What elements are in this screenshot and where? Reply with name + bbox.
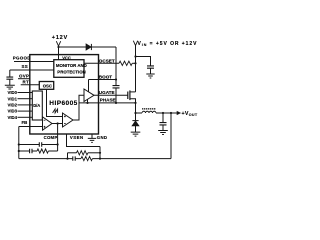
wire VID3 stub [18, 110, 33, 112]
wire PHASE internal [79, 102, 99, 104]
wire driver return stub [87, 99, 89, 103]
op-amp PWM comparator [63, 113, 74, 127]
capacitor C2 row [19, 144, 58, 146]
node junction dot rail-right [99, 158, 101, 160]
capacitor C3 [73, 156, 75, 160]
resistor R3 [81, 157, 92, 161]
osc block [39, 82, 53, 90]
svg-text:RT: RT [23, 80, 30, 85]
wire PGOOD [14, 61, 54, 63]
svg-text:FB: FB [22, 120, 28, 125]
wire FB to error amp [19, 126, 43, 128]
sawtooth waveform symbol [53, 109, 58, 113]
node junction dot PHASE-source [134, 102, 136, 104]
resistor R2 [37, 149, 48, 153]
svg-text:UGATE: UGATE [99, 90, 115, 95]
wire COMP vertical [57, 124, 59, 152]
ground (D2) [131, 132, 141, 136]
wire phase node down [135, 103, 137, 113]
node junction dot VSEN-R1 [99, 152, 101, 154]
node junction dot VIN-cap [134, 55, 136, 57]
node junction dot COMP-C2 [57, 143, 59, 145]
svg-text:VIN = +5V OR +12V: VIN = +5V OR +12V [138, 41, 198, 47]
wire +12V vertical to VCC [58, 47, 60, 60]
capacitor CIN [147, 66, 154, 68]
capacitor C1 [19, 150, 37, 152]
ground (CIN) [146, 74, 154, 78]
wire VOUT feedback vertical [170, 113, 172, 159]
ground (COUT) [158, 131, 168, 135]
svg-text:GND: GND [97, 135, 107, 140]
resistor ROCSET [119, 61, 132, 65]
node junction dot +12V [57, 46, 59, 48]
monitor and protection block [54, 60, 84, 78]
svg-text:COMP: COMP [44, 135, 58, 140]
svg-text:PHASE: PHASE [100, 97, 116, 102]
svg-text:+12V: +12V [52, 35, 68, 41]
wire VID0 stub [18, 92, 33, 94]
transistor Q1 MOSFET [127, 92, 129, 100]
wire +12V to diode [59, 46, 117, 48]
node VIN arrow [133, 41, 137, 46]
inductor LOUT [136, 112, 143, 114]
op-amp error amplifier [43, 117, 53, 130]
node junction dot CBOOT-PHASE [115, 102, 117, 104]
wire VID1 stub [18, 98, 33, 100]
wire BOOT internal stub [88, 80, 90, 92]
wire SS [10, 69, 54, 71]
wire PHASE external [99, 102, 136, 104]
node junction dot VIN-OCSET [134, 62, 136, 64]
D/A converter block [32, 91, 42, 120]
node junction dot phase node [134, 112, 136, 114]
wire VSEN right vertical [99, 147, 101, 159]
capacitor COUT [162, 113, 164, 122]
wire OCSET [84, 62, 119, 64]
svg-text:PROTECTION: PROTECTION [57, 70, 85, 75]
svg-text:MONITOR AND: MONITOR AND [56, 63, 87, 68]
node junction dot driver return [86, 102, 88, 104]
node junction dot BOOT [115, 78, 117, 80]
wire OSC to PWM comparator [47, 89, 63, 116]
wire RT to OSC [21, 84, 40, 86]
capacitor CBOOT [115, 80, 117, 86]
svg-text:OCSET: OCSET [99, 58, 115, 63]
wire VID4 stub [18, 116, 33, 118]
svg-text:VID0: VID0 [8, 90, 18, 95]
ground (SS cap) [5, 85, 15, 89]
svg-text:D/A: D/A [33, 103, 40, 108]
svg-text:BOOT: BOOT [99, 75, 112, 80]
op-amp IC outline HIP6005 [30, 55, 99, 134]
svg-text:VID1: VID1 [8, 96, 18, 101]
wire OVP stub [18, 78, 30, 80]
node junction dot FB-C2 [18, 143, 20, 145]
wire GND stub [91, 135, 93, 139]
wire VSEN [67, 135, 101, 147]
capacitor CSS [9, 70, 11, 77]
wire error amp out to PWM comparator [52, 123, 63, 125]
ground (GND pin) [88, 138, 96, 142]
wire diode to BOOT drop [115, 47, 117, 80]
wire PWM out to gate driver [73, 95, 84, 120]
wire UGATE [94, 94, 128, 96]
svg-text:VID4: VID4 [8, 115, 18, 120]
svg-text:VSEN: VSEN [70, 135, 84, 140]
svg-text:SS: SS [22, 64, 29, 69]
wire FB vertical [18, 127, 20, 159]
node +VOUT arrow [177, 111, 180, 114]
resistor R1 [68, 152, 77, 154]
wire R1 drop [67, 153, 69, 159]
node junction dot COUT [162, 112, 164, 114]
svg-text:VID2: VID2 [8, 103, 18, 108]
wire VID2 stub [18, 104, 33, 106]
node junction dot VOUT feedback [170, 112, 172, 114]
svg-text:PGOOD: PGOOD [13, 56, 32, 61]
op-amp gate driver [84, 89, 94, 102]
node COMP junction dot [57, 122, 59, 124]
diode D2 schottky [135, 113, 137, 120]
node junction dot R1-rail [66, 158, 68, 160]
wire VIN to input cap [136, 57, 151, 66]
bottom rail wire FB to VOUT [19, 158, 171, 160]
svg-text:VID3: VID3 [8, 109, 18, 114]
node junction dot FB-C1 [18, 150, 20, 152]
wire BOOT [89, 79, 117, 81]
svg-text:OVP: OVP [19, 74, 29, 79]
svg-text:OSC: OSC [43, 83, 52, 88]
wire VIN vertical [135, 46, 137, 92]
diode D1 [86, 44, 91, 50]
node +12V arrow [56, 41, 60, 46]
svg-text:HIP6005: HIP6005 [49, 100, 77, 107]
